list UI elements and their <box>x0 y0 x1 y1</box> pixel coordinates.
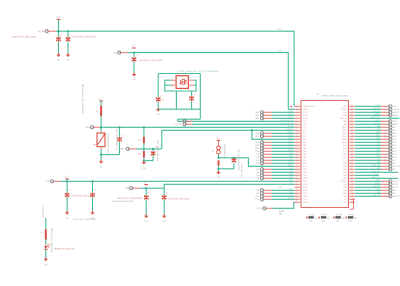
svg-text:C?: C? <box>94 190 96 192</box>
svg-text:SWDIO: SWDIO <box>375 114 381 116</box>
svg-text:C?: C? <box>161 96 163 98</box>
svg-text:PA10: PA10 <box>342 126 346 129</box>
svg-text:PB6: PB6 <box>289 177 292 179</box>
svg-text:PC6: PC6 <box>256 154 259 156</box>
svg-text:PB12: PB12 <box>303 187 307 189</box>
svg-text:22uF 25V X5R - 0805 C45783: 22uF 25V X5R - 0805 C45783 <box>72 36 96 38</box>
svg-text:PA3: PA3 <box>303 147 306 150</box>
svg-text:PB12: PB12 <box>255 142 259 144</box>
svg-text:PB6: PB6 <box>343 175 346 177</box>
svg-text:PC2: PC2 <box>303 133 306 135</box>
svg-text:PB11: PB11 <box>255 136 259 138</box>
svg-text:R?: R? <box>41 233 43 235</box>
svg-text:PA11: PA11 <box>342 129 346 132</box>
svg-text:PB6: PB6 <box>375 174 378 176</box>
svg-text:VBAT: VBAT <box>303 108 307 111</box>
svg-text:VDDQ: VDDQ <box>393 121 398 123</box>
svg-text:100nF 50V X7R - 0603 C14663: 100nF 50V X7R - 0603 C14663 <box>71 195 93 197</box>
svg-text:PB7: PB7 <box>256 190 259 192</box>
svg-text:PA12_EXT: PA12_EXT <box>372 116 380 119</box>
svg-text:GPIO1: GPIO1 <box>393 181 398 183</box>
svg-text:C?: C? <box>166 193 168 195</box>
svg-text:PB8: PB8 <box>256 193 259 195</box>
svg-text:PC3: PC3 <box>303 136 306 138</box>
svg-text:4K7: 4K7 <box>327 218 330 220</box>
svg-text:PB5: PB5 <box>289 174 292 176</box>
svg-text:SPI1_SCK: SPI1_SCK <box>372 165 381 167</box>
svg-text:PC0: PC0 <box>303 127 306 129</box>
svg-text:P?: P? <box>190 87 192 89</box>
svg-text:1uF 50V X5R - 0603 C15849: 1uF 50V X5R - 0603 C15849 <box>169 199 190 201</box>
svg-text:PC11: PC11 <box>342 157 346 159</box>
svg-text:PB3: PB3 <box>343 166 346 168</box>
svg-text:PB13: PB13 <box>289 144 293 146</box>
svg-text:IC7: IC7 <box>317 94 320 96</box>
svg-text:VOUT: VOUT <box>393 106 397 108</box>
svg-text:R?? 4K7: R?? 4K7 <box>322 215 328 217</box>
svg-text:100nF 50V X7R - 0603 C14663: 100nF 50V X7R - 0603 C14663 <box>139 60 163 62</box>
svg-text:PB2: PB2 <box>303 175 306 177</box>
svg-text:PC8: PC8 <box>289 159 292 161</box>
svg-text:PA8: PA8 <box>343 120 346 123</box>
svg-text:0402: 0402 <box>322 220 326 222</box>
svg-text:PC1: PC1 <box>303 130 306 132</box>
svg-text:CRYSTAL_16MHZ_SMD-3225_4P X03: CRYSTAL_16MHZ_SMD-3225_4P X032SU6M12H2 <box>177 70 219 73</box>
svg-text:R?: R? <box>96 111 98 113</box>
svg-text:PB9: PB9 <box>343 187 346 189</box>
svg-text:BOOT0: BOOT0 <box>303 202 309 204</box>
svg-text:PD2: PD2 <box>393 160 396 162</box>
svg-text:VSS: VSS <box>145 221 148 223</box>
svg-text:VOUT: VOUT <box>376 105 380 107</box>
svg-text:PD2: PD2 <box>343 163 346 165</box>
svg-text:P?: P? <box>171 78 173 80</box>
svg-text:PB10: PB10 <box>255 133 259 135</box>
svg-text:7.23: 7.23 <box>161 99 164 101</box>
svg-text:PC12: PC12 <box>342 160 346 162</box>
svg-text:GPIO2: GPIO2 <box>393 184 398 186</box>
svg-text:0402: 0402 <box>336 220 340 222</box>
svg-text:FB?: FB? <box>93 145 96 147</box>
svg-text:PA4: PA4 <box>303 150 306 153</box>
svg-text:PB5: PB5 <box>343 172 346 174</box>
svg-text:VSS: VSS <box>217 177 220 179</box>
svg-text:PC14: PC14 <box>303 115 307 117</box>
svg-text:PB8: PB8 <box>377 189 380 191</box>
svg-text:R?? 4K7: R?? 4K7 <box>336 215 342 217</box>
svg-text:R16: R16 <box>138 154 141 156</box>
svg-text:REGN/BOOT0: REGN/BOOT0 <box>303 106 314 108</box>
svg-text:PD2: PD2 <box>377 159 380 161</box>
svg-text:D?: D? <box>212 151 214 153</box>
svg-text:PB15: PB15 <box>303 196 307 198</box>
svg-text:4K7: 4K7 <box>354 218 357 220</box>
svg-text:PA2: PA2 <box>303 144 306 147</box>
svg-text:VREF+: VREF+ <box>120 149 126 151</box>
svg-text:USB_DP: USB_DP <box>393 112 399 114</box>
svg-text:PB8: PB8 <box>289 192 292 194</box>
svg-text:PB9: PB9 <box>377 192 380 194</box>
svg-text:PC7: PC7 <box>393 142 396 144</box>
svg-text:C15: C15 <box>66 44 68 47</box>
svg-text:VSS: VSS <box>163 221 166 223</box>
svg-text:NRST: NRST <box>288 165 293 167</box>
svg-text:PC9: PC9 <box>256 163 259 165</box>
svg-text:PC11: PC11 <box>376 153 380 155</box>
svg-text:1uF 50V X5R - 0603: 1uF 50V X5R - 0603 <box>240 163 242 178</box>
svg-text:PC9: PC9 <box>289 162 292 164</box>
svg-text:R10: R10 <box>138 140 141 142</box>
svg-text:PC7: PC7 <box>256 157 259 159</box>
svg-text:0402 100mW ±1% - 0603 C25725 R: 0402 100mW ±1% - 0603 C25725 R0402 <box>81 84 83 113</box>
svg-text:VSS: VSS <box>132 79 135 81</box>
svg-text:VCAP1: VCAP1 <box>303 183 309 186</box>
svg-text:0402: 0402 <box>309 220 313 222</box>
svg-text:BOOT0: BOOT0 <box>393 187 399 189</box>
svg-text:OSC_OUT: OSC_OUT <box>174 124 182 126</box>
svg-text:PB6: PB6 <box>256 178 259 180</box>
svg-text:VDDIO2: VDDIO2 <box>340 118 346 120</box>
svg-text:PB4: PB4 <box>377 168 380 170</box>
svg-text:TPD1E10B06DPYR: TPD1E10B06DPYR <box>223 144 225 159</box>
svg-text:VSS: VSS <box>57 60 60 62</box>
svg-text:VSS: VSS <box>65 218 68 220</box>
svg-text:PC14-OSC32_IN: PC14-OSC32_IN <box>280 123 293 125</box>
svg-text:1uF 50V X5R - 10 0603 C15849: 1uF 50V X5R - 10 0603 C15849 <box>73 219 96 221</box>
svg-text:PA12: PA12 <box>342 132 346 135</box>
svg-text:BOOT0: BOOT0 <box>279 211 285 213</box>
svg-text:PB4: PB4 <box>256 172 259 174</box>
svg-text:PB9: PB9 <box>289 195 292 197</box>
svg-text:PC7: PC7 <box>377 141 380 143</box>
svg-text:PA1: PA1 <box>303 141 306 144</box>
svg-text:HERALD LED 0805 C2297: HERALD LED 0805 C2297 <box>54 247 74 250</box>
svg-text:VSS: VSS <box>142 168 145 170</box>
svg-text:PC10: PC10 <box>289 198 293 200</box>
svg-text:PD1: PD1 <box>303 124 306 126</box>
svg-text:PC7: PC7 <box>343 145 346 147</box>
svg-text:VREF+: VREF+ <box>287 129 293 131</box>
svg-text:PC11: PC11 <box>393 154 397 156</box>
svg-text:PC10: PC10 <box>342 154 346 156</box>
svg-text:PA12_EXT: PA12_EXT <box>372 170 380 173</box>
svg-text:PB11: PB11 <box>289 135 293 137</box>
svg-text:R?? 4K7: R?? 4K7 <box>309 215 315 217</box>
svg-text:VSS: VSS <box>66 60 69 62</box>
svg-text:PC8: PC8 <box>393 145 396 147</box>
svg-text:PB15: PB15 <box>255 151 259 153</box>
svg-text:PB4: PB4 <box>393 169 396 171</box>
svg-text:PC12: PC12 <box>376 156 380 158</box>
svg-text:C15: C15 <box>57 44 59 47</box>
svg-text:PC4: PC4 <box>303 163 306 165</box>
svg-text:PC9: PC9 <box>343 151 346 153</box>
svg-text:22uF 25V X5R - 0805 C45783: 22uF 25V X5R - 0805 C45783 <box>12 36 36 38</box>
svg-text:PC9: PC9 <box>393 148 396 150</box>
svg-text:PB3: PB3 <box>256 169 259 171</box>
svg-text:PB8: PB8 <box>343 184 346 186</box>
svg-text:PB14: PB14 <box>303 193 307 195</box>
svg-text:PB11: PB11 <box>303 181 307 183</box>
svg-text:PB4: PB4 <box>343 169 346 171</box>
svg-text:VSS: VSS <box>99 167 102 169</box>
svg-text:VDDQ: VDDQ <box>375 120 380 122</box>
svg-text:PC12: PC12 <box>393 157 397 159</box>
svg-text:100nF 50V X7R - 10 0603 C14663: 100nF 50V X7R - 10 0603 C14663 <box>117 198 142 200</box>
svg-text:PB12: PB12 <box>289 141 293 143</box>
svg-text:PC8: PC8 <box>343 148 346 150</box>
svg-text:OSC_IN: OSC_IN <box>176 121 183 123</box>
svg-text:PB13: PB13 <box>303 190 307 192</box>
svg-text:PB9: PB9 <box>256 196 259 198</box>
svg-text:100nF 50V X7R - 0603 C14663: 100nF 50V X7R - 0603 C14663 <box>112 201 133 203</box>
svg-text:PB15: PB15 <box>289 150 293 152</box>
svg-text:0402 100mW ±1% - 0603 C25725: 0402 100mW ±1% - 0603 C25725 <box>50 229 52 253</box>
svg-text:4K7: 4K7 <box>342 218 345 220</box>
svg-text:VSS: VSS <box>157 114 160 116</box>
svg-text:PB1: PB1 <box>303 172 306 174</box>
svg-text:PB3: PB3 <box>393 163 396 165</box>
svg-text:PB3: PB3 <box>289 168 292 170</box>
svg-text:USB_DM: USB_DM <box>393 109 400 111</box>
svg-text:GPIO2: GPIO2 <box>375 183 380 185</box>
svg-text:PA15: PA15 <box>342 141 346 144</box>
svg-text:GPIO1: GPIO1 <box>375 180 380 182</box>
svg-text:BOOT0: BOOT0 <box>341 181 347 183</box>
svg-text:C?: C? <box>60 35 62 37</box>
svg-text:REGN: REGN <box>341 109 347 111</box>
svg-text:PC15: PC15 <box>303 118 307 120</box>
svg-text:C?: C? <box>148 193 150 195</box>
svg-text:PD0: PD0 <box>303 121 306 123</box>
svg-text:PA5: PA5 <box>303 153 306 156</box>
svg-text:PB5: PB5 <box>256 175 259 177</box>
svg-text:SWDIO: SWDIO <box>393 115 399 117</box>
svg-text:USB_DP: USB_DP <box>374 111 380 113</box>
svg-text:PB10: PB10 <box>303 178 307 180</box>
svg-text:PB10: PB10 <box>289 132 293 134</box>
svg-text:5V_USB: 5V_USB <box>38 31 45 33</box>
svg-text:PB13: PB13 <box>255 145 259 147</box>
svg-text:BOOT0: BOOT0 <box>257 208 263 210</box>
svg-text:PB3: PB3 <box>377 162 380 164</box>
svg-text:PC10: PC10 <box>376 150 380 152</box>
svg-text:PB14: PB14 <box>289 147 293 149</box>
svg-text:SPN032UQFN_IN32GA_STM: SPN032UQFN_IN32GA_STM <box>322 95 349 98</box>
svg-text:PC5: PC5 <box>303 166 306 168</box>
svg-text:C?: C? <box>194 95 196 97</box>
svg-text:PB4: PB4 <box>289 171 292 173</box>
svg-text:PB7: PB7 <box>343 178 346 180</box>
svg-text:SWCLK: SWCLK <box>374 123 381 125</box>
svg-text:PB14: PB14 <box>255 148 259 150</box>
svg-text:4K7: 4K7 <box>279 213 282 215</box>
svg-text:4K7: 4K7 <box>315 218 318 220</box>
svg-text:PB0: PB0 <box>303 169 306 171</box>
svg-text:PC8: PC8 <box>256 160 259 162</box>
svg-text:PC10: PC10 <box>393 151 397 153</box>
svg-text:PC6: PC6 <box>303 199 306 201</box>
svg-text:R?? 4K7: R?? 4K7 <box>349 215 355 217</box>
svg-text:P?: P? <box>190 78 192 80</box>
svg-text:PA9: PA9 <box>343 123 346 126</box>
svg-text:PA6: PA6 <box>303 156 306 159</box>
svg-text:0402: 0402 <box>349 220 353 222</box>
svg-text:PA0: PA0 <box>303 138 306 141</box>
svg-text:PC7: PC7 <box>289 156 292 158</box>
svg-text:PB9: PB9 <box>393 193 396 195</box>
svg-text:SPI1_SCK: SPI1_SCK <box>393 166 400 168</box>
svg-text:100nF 16V X7R - 0603 C1525: 100nF 16V X7R - 0603 C1525 <box>237 149 239 171</box>
svg-text:PC14-OSC32_IN: PC14-OSC32_IN <box>280 120 293 122</box>
svg-text:PC13: PC13 <box>303 112 307 114</box>
svg-text:PB8: PB8 <box>393 190 396 192</box>
svg-text:C?: C? <box>122 135 124 137</box>
svg-text:PA14: PA14 <box>342 138 346 141</box>
svg-text:PC10: PC10 <box>255 199 259 201</box>
svg-text:PC8: PC8 <box>377 144 380 146</box>
svg-text:Y1: Y1 <box>177 74 179 76</box>
svg-text:LED?: LED? <box>48 244 52 246</box>
svg-text:C?: C? <box>69 190 71 192</box>
svg-text:100nF 16V X7R - 0603 C1525: 100nF 16V X7R - 0603 C1525 <box>156 140 158 162</box>
svg-text:SWCLK: SWCLK <box>393 124 400 126</box>
svg-text:C?: C? <box>137 55 139 57</box>
svg-text:PC6: PC6 <box>289 153 292 155</box>
svg-text:USB_DM: USB_DM <box>373 108 380 110</box>
svg-text:100nF 16V X7R - 0603 C1525: 100nF 16V X7R - 0603 C1525 <box>115 129 117 151</box>
svg-text:PA13: PA13 <box>342 135 346 138</box>
svg-text:PA7: PA7 <box>303 159 306 162</box>
svg-text:PA12_EXT: PA12_EXT <box>372 176 380 179</box>
svg-text:P?: P? <box>171 87 173 89</box>
svg-text:PB7: PB7 <box>289 189 292 191</box>
svg-text:BOOT0: BOOT0 <box>375 186 381 188</box>
svg-text:PC9: PC9 <box>377 147 380 149</box>
svg-text:VSS: VSS <box>44 264 47 266</box>
